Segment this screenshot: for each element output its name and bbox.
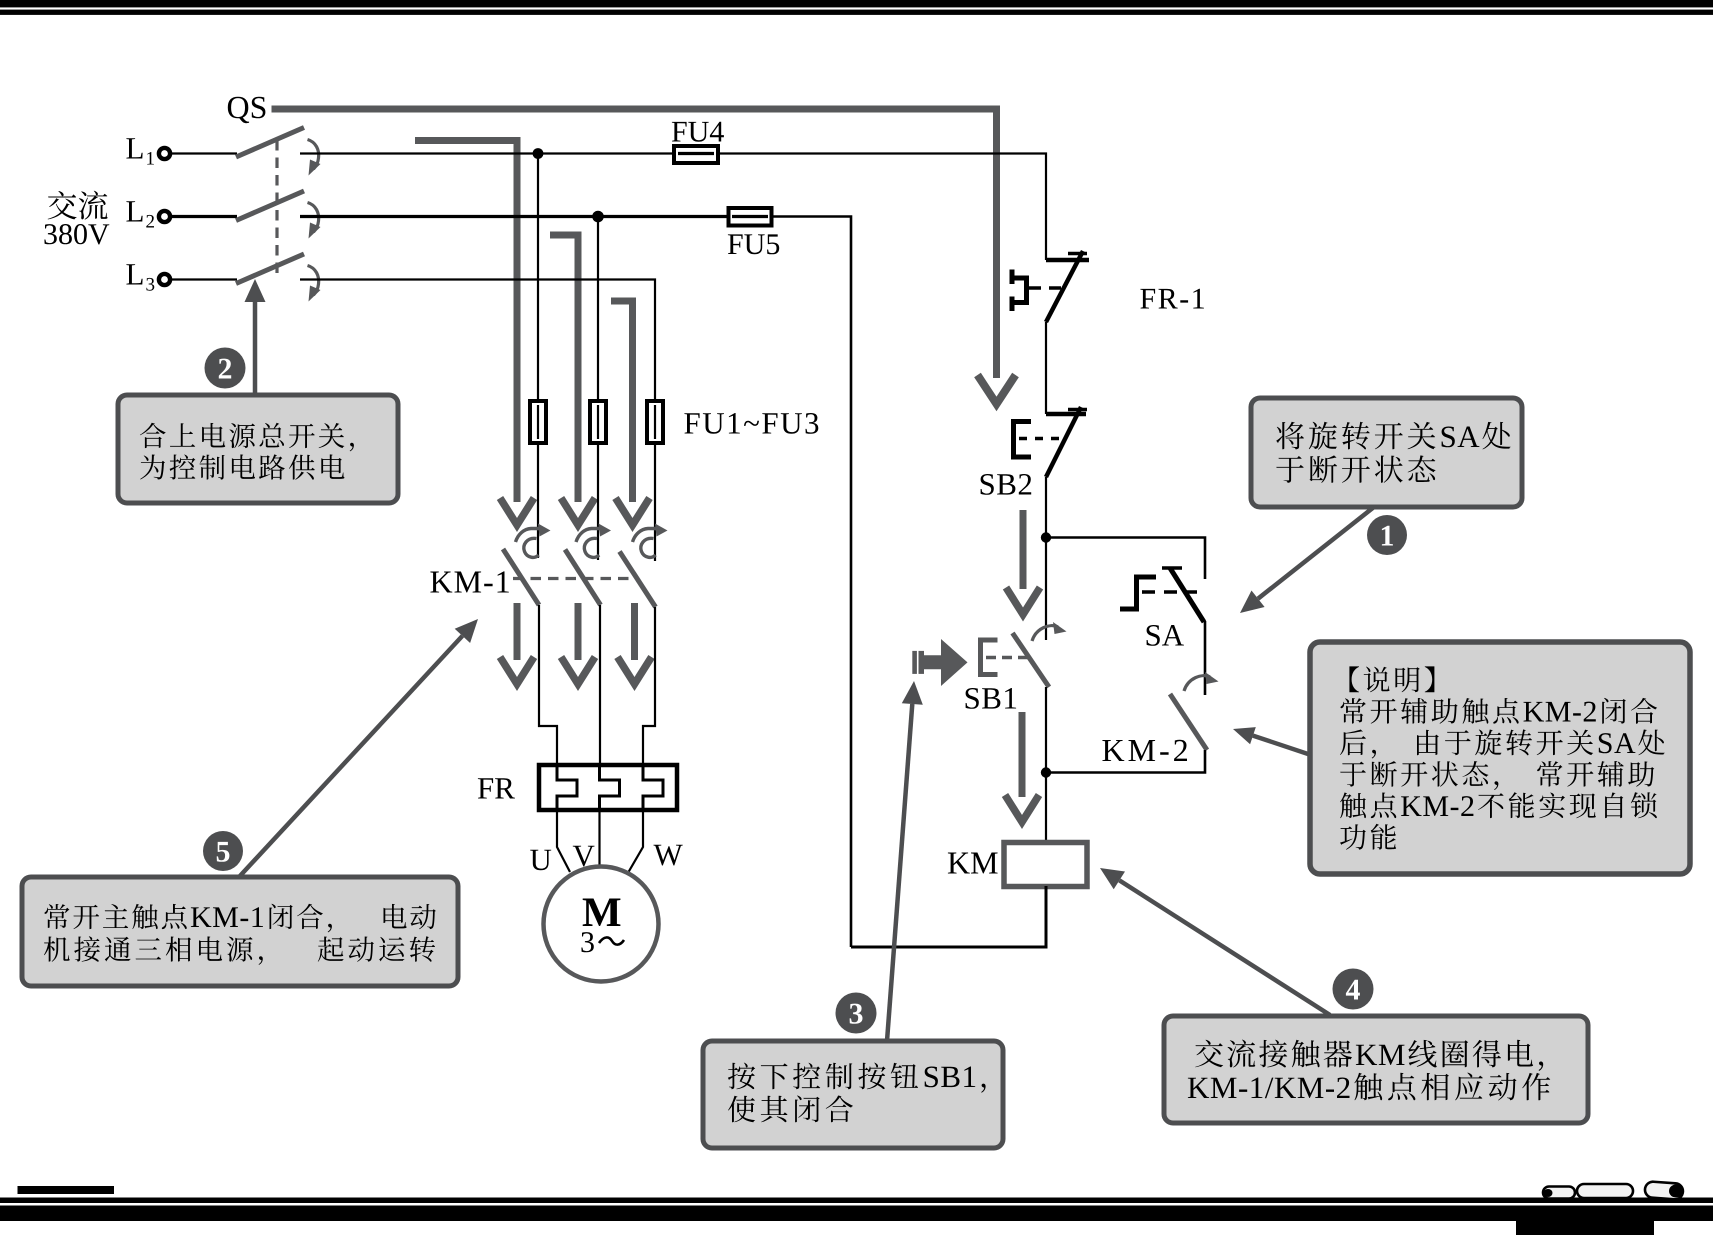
- QS pole 2 blade: [236, 191, 304, 221]
- KM-2 rotation arrow: [1184, 676, 1210, 691]
- FR-1 dashed link: [1029, 286, 1068, 289]
- button SB2 blade: [1046, 407, 1081, 477]
- SA dashed link: [1142, 590, 1197, 594]
- SB1 dashed link: [986, 656, 1028, 659]
- wire SB2 to junction: [1045, 477, 1047, 640]
- fuse FU2: [590, 401, 606, 443]
- terminal L1: [126, 138, 142, 158]
- label SB1: [966, 688, 1017, 709]
- flow arrowhead above FR-1: [978, 375, 1016, 404]
- junction dot L1/FU1: [533, 148, 544, 159]
- callout box 1: [1251, 398, 1522, 507]
- callout box 5: [22, 877, 458, 986]
- junction dot above KM coil: [1041, 767, 1051, 777]
- junction dot L2/FU2: [592, 211, 604, 223]
- label KM: [948, 853, 998, 874]
- label SB2: [981, 474, 1032, 495]
- wire pole2 to FR: [599, 605, 601, 767]
- numbered circle 4: [1333, 969, 1374, 1010]
- fuse FU4: [674, 146, 718, 163]
- wire FU3 to KM-1 pole3: [654, 443, 656, 561]
- thick flow line from QS into control circuit: [272, 109, 997, 378]
- pointer arrow from shuoming box to KM-2: [1253, 736, 1311, 755]
- callout box 4: [1164, 1016, 1588, 1123]
- wire KM coil to bottom rail: [851, 886, 1046, 947]
- QS pole 3 blade: [236, 254, 304, 284]
- KM-1 pole 1 blade: [503, 549, 539, 605]
- flow arrowhead pole 3: [616, 498, 650, 525]
- junction dot below SB2: [1041, 532, 1051, 542]
- contact FR-1 blade: [1046, 251, 1083, 322]
- wire KM-2 to bottom branch: [1046, 750, 1205, 773]
- wire L2 drop to FU2: [597, 217, 599, 402]
- page bottom rule and bars: [0, 1186, 1713, 1235]
- wire SA to KM-2: [1204, 621, 1207, 695]
- motor 3~ label: [581, 932, 593, 952]
- SB1 blade: [1013, 633, 1050, 687]
- label FU1~FU3: [684, 413, 818, 434]
- wire L3 to QS: [171, 278, 238, 280]
- label 交流 380V: [48, 191, 77, 219]
- label U: [530, 850, 551, 871]
- numbered circle 3: [836, 993, 877, 1034]
- wire L1 drop to FU1: [537, 154, 539, 402]
- callout box 2: [118, 395, 398, 503]
- callout box shuoming: [1310, 642, 1690, 874]
- FR-1 blade tick: [1068, 252, 1087, 256]
- wire L1 to QS: [171, 152, 238, 154]
- pointer arrow from box 1 to SA: [1258, 507, 1374, 599]
- wire L3 after QS down to FU3: [300, 280, 655, 402]
- KM-1 gang dashed link: [513, 577, 638, 580]
- motor lead V: [598, 810, 600, 867]
- auxiliary contact KM-2 blade: [1170, 694, 1207, 750]
- button SB1 press arrow: [912, 639, 967, 686]
- flow line into KM-1 pole 3: [611, 301, 633, 502]
- wire FU2 to KM-1 pole2: [597, 443, 599, 560]
- callout box 3: [703, 1041, 1003, 1148]
- wire SB1 to junction 2: [1045, 687, 1047, 843]
- fuse FU3: [647, 401, 663, 443]
- SB2 blade tick: [1068, 408, 1087, 412]
- flow arrow above KM coil: [1019, 712, 1026, 797]
- label V: [573, 846, 595, 867]
- SB1 push actuator: [981, 640, 998, 675]
- motor lead W: [629, 810, 644, 872]
- numbered circle 2: [205, 348, 246, 389]
- KM-1 rotation arrows: [516, 529, 540, 543]
- KM-1 pole 3 blade: [620, 552, 656, 608]
- wire pole1 to FR: [539, 605, 557, 767]
- page top border bars: [0, 0, 1713, 15]
- label W: [654, 845, 683, 866]
- wire L1 FU4 to control corner: [718, 154, 1046, 261]
- SB2 dashed link: [1019, 437, 1063, 441]
- flow line into KM-1 pole 1: [415, 141, 517, 503]
- SA blade: [1170, 568, 1204, 622]
- fuse FU1: [530, 401, 546, 443]
- flow arrows below KM-1 poles: [514, 603, 521, 660]
- numbered circle 5: [203, 831, 243, 871]
- pointer arrow from box 3 to SB1: [887, 704, 912, 1041]
- wire L2 FU5 to left control rail: [772, 217, 852, 948]
- motor letter M: [583, 899, 621, 927]
- wire FR-1 to SB2: [1045, 322, 1047, 414]
- label FR-1: [1140, 289, 1204, 309]
- branch wire to SA: [1046, 538, 1205, 580]
- SB1 rotation arrow: [1032, 626, 1058, 641]
- SA blade tick: [1162, 566, 1182, 570]
- SB2 push actuator: [1014, 422, 1032, 458]
- QS gang dashed link: [275, 140, 278, 277]
- label SA: [1147, 625, 1184, 646]
- KM-1 pole 2 blade: [565, 550, 601, 606]
- motor lead U: [557, 810, 570, 872]
- thermal relay FR box: [539, 765, 677, 810]
- switch QS label: [228, 97, 266, 123]
- fuse FU5: [729, 208, 772, 226]
- terminal L3: [126, 264, 142, 284]
- button SB2 fixed bar: [1046, 412, 1086, 417]
- wire FU1 to KM-1 pole1: [537, 443, 539, 558]
- thermal relay FR label: [478, 778, 515, 798]
- rotary switch SA actuator: [1120, 577, 1156, 609]
- wire L2 after QS to FU5: [300, 215, 729, 218]
- wire pole3 to FR: [643, 607, 655, 767]
- contactor KM-1 label: [430, 571, 508, 592]
- flow arrow between SB2 and SB1: [1020, 510, 1027, 589]
- FR heater elements: [557, 767, 577, 810]
- motor M 3~ circle: [544, 867, 659, 982]
- flow line into KM-1 pole 2: [550, 235, 578, 502]
- FR-1 thermal actuator: [1012, 270, 1027, 312]
- contactor coil KM: [1004, 843, 1087, 887]
- QS rotation arrows: [308, 140, 319, 170]
- flow arrowhead pole 2: [561, 498, 595, 525]
- pointer arrow from box 5 to KM-1: [239, 636, 462, 877]
- wire L2 to QS: [171, 215, 238, 218]
- flow arrowhead pole 1: [500, 498, 534, 525]
- pointer arrow from box 4 to KM coil: [1119, 880, 1330, 1015]
- terminal L2: [126, 201, 142, 221]
- numbered circle 1: [1367, 515, 1407, 555]
- label KM-2: [1102, 740, 1187, 761]
- small logo doodles bottom right: [1543, 1181, 1683, 1200]
- contact FR-1 fixed bar: [1046, 258, 1089, 263]
- pointer arrow from box 2 to QS: [253, 302, 258, 394]
- wire L1 after QS to FU4: [300, 152, 674, 154]
- QS pole 1 blade: [236, 128, 304, 158]
